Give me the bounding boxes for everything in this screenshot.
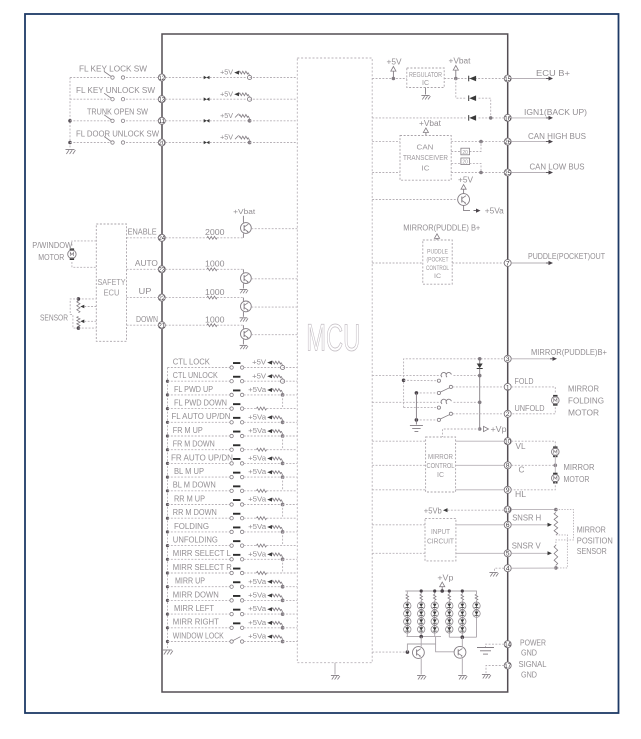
relay K2 contact — [437, 406, 452, 422]
LED D12 — [404, 610, 411, 617]
wire switch to node FL AUTO UP/DN — [244, 421, 283, 423]
svg-text:11: 11 — [159, 118, 166, 125]
node rail MIRR DOWN — [166, 599, 169, 602]
svg-text:(POCKET: (POCKET — [427, 257, 449, 264]
wire +Vbat branch down — [456, 79, 467, 99]
wire SAFETY ECU UP — [127, 297, 159, 299]
node rail FR M DOWN — [166, 448, 169, 451]
wire switch to node MIRR DOWN — [244, 599, 283, 601]
wire switch to resistor MIRR SELECT R — [244, 572, 257, 574]
LED D42 — [446, 610, 453, 617]
ground (switch-panel rail) — [163, 650, 173, 655]
svg-text:MOTOR: MOTOR — [568, 409, 599, 418]
label CAN LOW BUS — [530, 163, 586, 172]
wire CAN L to pin 25 — [451, 172, 504, 174]
label UP — [139, 287, 153, 296]
svg-text:MOTOR: MOTOR — [564, 475, 590, 484]
diode D8 — [477, 364, 483, 369]
svg-text:FR M UP: FR M UP — [173, 426, 203, 435]
wire pin 1 to fold motor — [511, 387, 555, 394]
potentiometer sensor 1 — [77, 301, 80, 313]
wire switch to resistor FR M DOWN — [244, 449, 257, 451]
ground (key switch rail) — [66, 150, 76, 155]
label DOWN — [136, 315, 158, 324]
relay K1 contact — [437, 379, 452, 395]
wire Q2 base to MCU — [251, 278, 297, 280]
node rail FL AUTO UP/DN — [166, 421, 169, 424]
wire D7 to pin 16 — [479, 117, 505, 119]
label FL PWD DOWN — [174, 399, 227, 408]
label +Vbat (CAN) — [419, 119, 442, 128]
svg-text:+5Va: +5Va — [248, 495, 267, 504]
svg-text:CTL UNLOCK: CTL UNLOCK — [173, 371, 219, 380]
svg-text:BL M DOWN: BL M DOWN — [173, 481, 216, 490]
wire diode to +5V node — [210, 77, 250, 79]
label ECU B+ — [536, 69, 570, 78]
wire resistor to MCU FR M DOWN — [267, 449, 298, 451]
wire pin 8 to motor node — [511, 464, 555, 466]
resistor inline UNFOLDING — [257, 544, 267, 547]
wire sensor bracket right — [556, 510, 574, 546]
svg-text:17: 17 — [504, 663, 511, 670]
+5V pull-up row 1 — [220, 68, 252, 80]
regulator U2 box — [407, 68, 444, 88]
wire resistor to MCU RR M DOWN — [267, 517, 298, 519]
node sensor top — [77, 297, 81, 301]
wire switch to node WINDOW LOCK — [244, 641, 283, 643]
svg-text:SENSOR: SENSOR — [40, 314, 68, 323]
resistor LED col 6 — [475, 591, 478, 602]
pin 25 — [504, 169, 511, 177]
label FR M UP — [173, 426, 203, 435]
wire node to MCU BL M UP — [283, 476, 298, 478]
svg-text:7: 7 — [506, 260, 510, 267]
wire pin 19 to sensor — [511, 509, 556, 511]
label FL PWD UP — [174, 385, 213, 394]
wire switch to resistor RR M DOWN — [244, 517, 257, 519]
wire Q3 emitter — [242, 312, 244, 317]
ground (pin 17) — [482, 675, 491, 679]
wire CAN term top — [451, 142, 481, 152]
ground (Q7) — [458, 676, 467, 680]
wire rail to switch BL M DOWN — [168, 490, 230, 492]
wire/arrow IGN1(BACK UP) — [511, 116, 553, 120]
+5Va pull-up WINDOW LOCK — [248, 632, 284, 644]
wire resistor to MCU FL PWD DOWN — [267, 408, 298, 410]
svg-text:+5Va: +5Va — [248, 549, 267, 558]
pin 7 — [504, 260, 511, 268]
label UNFOLDING — [173, 536, 218, 545]
wire switch to node MIRR UP — [244, 586, 283, 588]
resistor 1000 label — [205, 288, 225, 297]
supply arrow +Vbat — [453, 66, 458, 79]
wire switch to resistor UNFOLDING — [244, 545, 257, 547]
wire MCU to pin 16 — [372, 117, 466, 119]
svg-text:GND: GND — [521, 670, 537, 679]
label SIGNAL GND — [519, 660, 547, 679]
wire pin 11 to diode — [165, 120, 203, 122]
wire resistor to MCU UNFOLDING — [267, 545, 298, 547]
pin 3 — [504, 355, 511, 363]
svg-text:IGN1(BACK UP): IGN1(BACK UP) — [524, 108, 587, 117]
svg-text:5: 5 — [506, 551, 510, 558]
svg-text:20: 20 — [159, 140, 166, 147]
svg-text:15: 15 — [504, 76, 511, 83]
svg-text:GND: GND — [521, 649, 537, 658]
wire LED bottom rail right — [449, 636, 476, 638]
label +Vbat (pin15) — [449, 57, 472, 66]
switch FOLDING — [230, 527, 244, 534]
wire sensor bottom node — [78, 327, 96, 329]
wire pin 21 corner to Q4 — [242, 325, 244, 328]
wire switch to node RR M UP — [244, 504, 283, 506]
label TRUNK OPEN SW — [87, 108, 148, 117]
label VL — [516, 442, 526, 451]
switch BL M DOWN — [230, 485, 244, 492]
wire relay1 NC — [404, 379, 438, 381]
wire shared pull-up drop MIRR SELECT R — [282, 559, 284, 573]
wire resistor to MCU MIRR SELECT R — [267, 572, 298, 574]
wire MCU to Q6 base — [372, 651, 407, 653]
node relay NC tap — [402, 379, 406, 383]
node sensor supply — [554, 508, 558, 512]
svg-text:CTL LOCK: CTL LOCK — [173, 357, 211, 366]
wire/arrow MIRROR(PUDDLE)B+ — [511, 357, 557, 361]
wire LED col 1 bottom — [406, 633, 408, 637]
motor M4 mirror — [552, 473, 560, 484]
svg-text:IC: IC — [434, 273, 441, 280]
transistor Q6 — [413, 647, 425, 659]
svg-text:4: 4 — [506, 566, 510, 573]
svg-text:6: 6 — [506, 522, 510, 529]
LED D62 — [473, 610, 480, 617]
svg-text:20: 20 — [462, 150, 468, 156]
+5Va pull-up MIRR RIGHT — [248, 618, 284, 630]
label FL AUTO UP/DN — [172, 412, 231, 421]
label SNSR H — [512, 513, 541, 522]
node CAN L — [479, 171, 483, 175]
relay K2 coil — [441, 399, 451, 404]
diode D6 — [469, 95, 476, 101]
node rail UNFOLDING — [166, 544, 169, 547]
supply arrow +5V switch — [461, 185, 466, 194]
svg-text:UNFOLD: UNFOLD — [515, 404, 545, 413]
svg-text:+5Va: +5Va — [248, 632, 267, 641]
label CTL LOCK — [173, 357, 211, 366]
wire node to MCU WINDOW LOCK — [283, 641, 298, 643]
diode D5 — [469, 76, 476, 82]
wire motor M4 to pin 9 — [511, 482, 555, 490]
+5Va pull-up RR M UP — [248, 495, 284, 507]
svg-text:+5V: +5V — [387, 58, 403, 67]
resistor 1000 label — [205, 316, 225, 325]
wire rail to switch RR M DOWN — [168, 517, 230, 519]
label C — [519, 465, 525, 474]
pin 20 — [158, 139, 165, 147]
svg-text:REGULATOR: REGULATOR — [409, 72, 442, 79]
wire FL DOOR UNLOCK SW row — [70, 142, 158, 144]
svg-text:+5Va: +5Va — [485, 206, 505, 215]
transistor Q4 — [241, 329, 252, 340]
svg-text:20: 20 — [462, 160, 468, 166]
svg-text:UP: UP — [139, 287, 153, 296]
motor M1 p/window — [68, 248, 76, 260]
wire relay2 coil feed — [372, 401, 480, 403]
+5V pull-up row 4 — [220, 133, 251, 145]
ground Q4 — [240, 345, 248, 349]
pin 17 — [504, 662, 511, 670]
switch FL KEY UNLOCK SW — [104, 93, 125, 101]
svg-text:2: 2 — [506, 411, 510, 418]
LED D54 — [459, 626, 466, 633]
puddle control U4 box — [423, 240, 452, 284]
wire switch to node MIRR RIGHT — [244, 627, 283, 629]
label MIRROR FOLDING MOTOR — [568, 385, 604, 418]
wire diode to +5V node — [210, 98, 250, 100]
svg-text:+5Va: +5Va — [248, 385, 267, 394]
wire FL KEY UNLOCK SW row — [70, 98, 158, 100]
wire relay1 common — [416, 392, 437, 394]
wire relay1 NO to pin 1 — [453, 386, 505, 388]
input circuit U6 box — [425, 518, 456, 561]
switch RR M UP — [230, 499, 244, 506]
LED D24 — [418, 626, 425, 633]
wire MCU to mirror IC 1 — [372, 440, 425, 442]
svg-text:PUDDLE: PUDDLE — [427, 248, 448, 255]
wire node to MCU FR M UP — [283, 435, 298, 437]
label CAN HIGH BUS — [528, 132, 587, 141]
wire relay2 NO to pin 2 — [453, 413, 505, 415]
svg-text:RR M UP: RR M UP — [174, 494, 205, 503]
resistor inline FR M DOWN — [257, 448, 267, 451]
svg-text:+5Va: +5Va — [248, 412, 267, 421]
svg-text:+5Va: +5Va — [248, 577, 267, 586]
wire LED bottom rail left — [407, 636, 442, 638]
label WINDOW LOCK — [173, 631, 225, 640]
node pin3-Vp — [478, 357, 482, 361]
svg-text:+Vbat: +Vbat — [419, 119, 442, 128]
wire regulator ground — [425, 88, 427, 95]
svg-text:FL PWD DOWN: FL PWD DOWN — [174, 399, 227, 408]
svg-text:1000: 1000 — [205, 288, 225, 297]
wire LED col 4 bottom — [448, 633, 450, 637]
wire rail to switch MIRR SELECT R — [168, 572, 230, 574]
+5V pull-up row 2 — [220, 89, 252, 101]
svg-text:3: 3 — [506, 356, 510, 363]
wire +Vbat to Q1 — [242, 216, 244, 223]
svg-text:VL: VL — [516, 442, 526, 451]
label RR M DOWN — [173, 508, 217, 517]
+5Va pull-up FL AUTO UP/DN — [248, 412, 284, 424]
ground (relay common) — [410, 426, 423, 432]
wire rail to switch FR M DOWN — [168, 449, 230, 451]
wire/arrow CAN HIGH BUS — [511, 140, 553, 144]
+5V pull-up CTL UNLOCK — [252, 371, 285, 383]
svg-text:MIRR SELECT R: MIRR SELECT R — [173, 563, 232, 572]
pin 14 — [504, 641, 511, 649]
label RR M UP — [174, 494, 205, 503]
label FOLDING — [174, 522, 209, 531]
label MIRR LEFT — [174, 604, 214, 613]
arrow +5Vb — [443, 508, 448, 512]
svg-text:8: 8 — [506, 463, 510, 470]
pin 1 — [504, 383, 511, 391]
wire Q3 base to MCU — [251, 306, 297, 308]
pin 19 — [504, 506, 511, 514]
wire node to MCU CTL UNLOCK — [283, 380, 298, 382]
pin 15 — [504, 75, 511, 83]
svg-text:MIRR SELECT L: MIRR SELECT L — [173, 549, 232, 558]
wire LED top rail — [405, 590, 477, 592]
svg-text:FL KEY LOCK SW: FL KEY LOCK SW — [79, 64, 147, 73]
LED D31 — [431, 602, 438, 609]
MCU U1 box — [297, 58, 372, 663]
wire shared pull-up drop UNFOLDING — [282, 532, 284, 546]
switch FL PWD DOWN — [230, 403, 244, 410]
+5Va pull-up FOLDING — [248, 522, 284, 534]
svg-text:SIGNAL: SIGNAL — [519, 660, 547, 669]
svg-text:MOTOR: MOTOR — [38, 253, 64, 262]
svg-text:19: 19 — [504, 507, 511, 514]
svg-text:CAN LOW BUS: CAN LOW BUS — [530, 163, 586, 172]
label IGN1(BACK UP) — [524, 108, 587, 117]
puddle control U4 label — [426, 248, 449, 280]
CAN transceiver U3 box — [400, 136, 451, 181]
wire LED col 6 bottom — [476, 617, 478, 637]
node +Vbat — [454, 77, 458, 81]
wire sensor top node — [78, 298, 96, 300]
switch FL PWD UP — [230, 390, 244, 397]
svg-text:2000: 2000 — [205, 228, 225, 237]
supply arrow +Vp LED — [440, 582, 445, 591]
svg-text:26: 26 — [504, 139, 511, 146]
svg-text:MIRR LEFT: MIRR LEFT — [174, 604, 214, 613]
node +5V regulator — [392, 77, 396, 81]
svg-text:+5Va: +5Va — [248, 604, 267, 613]
wire node to MCU MIRR RIGHT — [283, 627, 298, 629]
wire switch to node FR M UP — [244, 435, 283, 437]
svg-text:MIRROR: MIRROR — [564, 463, 595, 472]
mirror control U5 label — [427, 452, 455, 479]
svg-text:MIRROR: MIRROR — [577, 525, 606, 534]
supply arrow +Vp mirror — [484, 426, 489, 431]
node relay2 coil-Vp — [478, 401, 482, 405]
LED D34 — [431, 626, 438, 633]
svg-text:MIRROR: MIRROR — [428, 452, 453, 461]
wire pin 12 to diode — [165, 77, 203, 79]
diode D7 — [469, 115, 476, 121]
svg-text:16: 16 — [504, 115, 511, 122]
svg-text:+Vbat: +Vbat — [233, 207, 256, 216]
LED D51 — [459, 602, 466, 609]
svg-text:MCU: MCU — [306, 318, 360, 360]
svg-text:MIRR RIGHT: MIRR RIGHT — [173, 618, 219, 627]
ground (MCU) — [331, 676, 340, 680]
supply arrow +5V — [391, 67, 396, 79]
wire rail to switch MIRR LEFT — [168, 613, 230, 615]
resistor inline FL PWD DOWN — [257, 407, 267, 410]
pin 9 — [504, 486, 511, 494]
wire Q7 collector — [461, 637, 463, 646]
node LED rail — [420, 589, 423, 592]
node Q6 base — [406, 650, 410, 654]
switch FL DOOR UNLOCK SW — [104, 137, 125, 145]
wire puddle IC to pin 7 — [452, 262, 504, 264]
svg-text:FL AUTO UP/DN: FL AUTO UP/DN — [172, 412, 231, 421]
switch UNFOLDING — [230, 540, 244, 547]
wire switch to node MIRR LEFT — [244, 613, 283, 615]
svg-text:BL M UP: BL M UP — [174, 467, 204, 476]
regulator U2 label — [409, 72, 442, 87]
wire diode to +5V node — [210, 142, 250, 144]
svg-text:+5V: +5V — [220, 111, 233, 120]
wire SAFETY ECU AUTO — [127, 268, 159, 270]
transistor Q1 — [241, 223, 252, 234]
svg-text:DOWN: DOWN — [136, 315, 158, 324]
switch FL KEY LOCK SW — [104, 72, 125, 80]
wire rail to switch CTL LOCK — [168, 367, 230, 369]
wire mirror IC to pin 9 — [456, 489, 505, 491]
wire rail to switch FL AUTO UP/DN — [168, 421, 230, 423]
label +Vbat (driver) — [233, 207, 256, 216]
wiper arrow sensor 2 — [80, 320, 96, 324]
SAFETY ECU box — [96, 224, 126, 341]
wire switch to node FR AUTO UP/DN — [244, 462, 283, 464]
wire pin 17 ground — [486, 666, 504, 674]
wire/arrow CAN LOW BUS — [511, 170, 553, 174]
node relay1 coil-Vp — [478, 374, 482, 378]
wire MCU to input 1 — [372, 524, 425, 526]
wire node to MCU FL PWD UP — [283, 394, 298, 396]
wire/arrow ECU B+ — [511, 76, 553, 80]
wire SAFETY ECU DOWN — [127, 324, 159, 326]
wire MCU ground — [334, 663, 336, 675]
potentiometer sensor 2 — [77, 317, 80, 327]
label MIRROR(PUDDLE)B+ — [531, 348, 607, 357]
svg-text:PUDDLE(POCKET)OUT: PUDDLE(POCKET)OUT — [528, 252, 605, 261]
svg-text:1: 1 — [506, 384, 510, 391]
label SNSR V — [512, 542, 542, 551]
LED D14 — [404, 626, 411, 633]
wire motor M4 top — [554, 465, 556, 474]
wire +5Vb to pin 19 — [448, 509, 505, 511]
pin 4 — [504, 565, 511, 573]
node rail BL M DOWN — [166, 489, 169, 492]
wire Q1 emitter — [242, 233, 244, 237]
svg-text:+5Va: +5Va — [248, 426, 267, 435]
label FL KEY LOCK SW — [79, 64, 147, 73]
wire Q1 base to MCU — [251, 228, 297, 230]
svg-text:23: 23 — [159, 267, 166, 274]
wire LED col 5 bottom — [461, 633, 463, 637]
wire pin 6 wiper — [511, 523, 552, 527]
label FL KEY UNLOCK SW — [76, 86, 155, 95]
wire TRUNK OPEN SW row — [70, 120, 158, 122]
svg-text:+5V: +5V — [252, 371, 266, 380]
svg-text:+Vp: +Vp — [437, 573, 454, 582]
label FR M DOWN — [173, 440, 215, 449]
node mirror motors — [554, 464, 558, 468]
label BL M UP — [174, 467, 204, 476]
LED D52 — [459, 610, 466, 617]
wire switch to node BL M UP — [244, 476, 283, 478]
main ECU box — [162, 34, 508, 692]
resistor LED col 1 — [406, 591, 409, 602]
relay K1 coil — [441, 372, 451, 377]
svg-text:CONTROL: CONTROL — [426, 265, 449, 272]
wire relay2 NC — [404, 407, 438, 409]
label BL M DOWN — [173, 481, 216, 490]
